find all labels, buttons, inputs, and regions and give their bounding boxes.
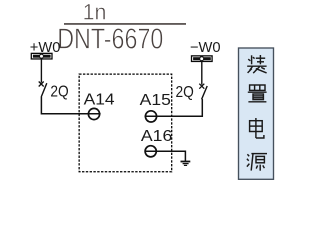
wire from right switch to terminal A15 [145, 99, 203, 116]
char Zhuang (top of power panel label) [247, 55, 266, 73]
wire from -W0 terminal down to right switch [201, 61, 203, 85]
svg-text:−W0: −W0 [190, 40, 221, 56]
svg-text:A15: A15 [140, 92, 171, 109]
test terminal block on -W0 [192, 56, 213, 62]
char Dian [250, 118, 264, 138]
terminal A16 circle [145, 146, 156, 157]
ground symbol [181, 162, 191, 166]
fraction line [64, 23, 186, 25]
power panel box 装置电源 [239, 48, 274, 179]
svg-text:1n: 1n [83, 0, 107, 25]
disconnect switch 2Q (left) blade [41, 83, 47, 97]
svg-text:A16: A16 [141, 128, 173, 145]
wire from +W0 terminal down to switch [40, 58, 42, 82]
char Yuan [247, 154, 267, 171]
test terminal block on +W0 [31, 53, 52, 59]
disconnect switch 2Q (right) blade [202, 86, 208, 99]
terminal A15 circle [145, 111, 156, 122]
svg-text:DNT-6670: DNT-6670 [57, 23, 163, 55]
terminal A14 circle [88, 108, 99, 119]
char Zhi [248, 85, 267, 102]
svg-text:2Q: 2Q [176, 84, 194, 101]
svg-text:2Q: 2Q [50, 83, 68, 100]
contact cross mark (right switch) [199, 84, 204, 89]
wire from A16 to ground [145, 151, 186, 161]
device box (dashed) [79, 74, 172, 172]
svg-text:A14: A14 [84, 92, 115, 109]
wire from left switch to terminal A14 [41, 97, 100, 114]
contact cross mark (left switch) [39, 82, 44, 87]
